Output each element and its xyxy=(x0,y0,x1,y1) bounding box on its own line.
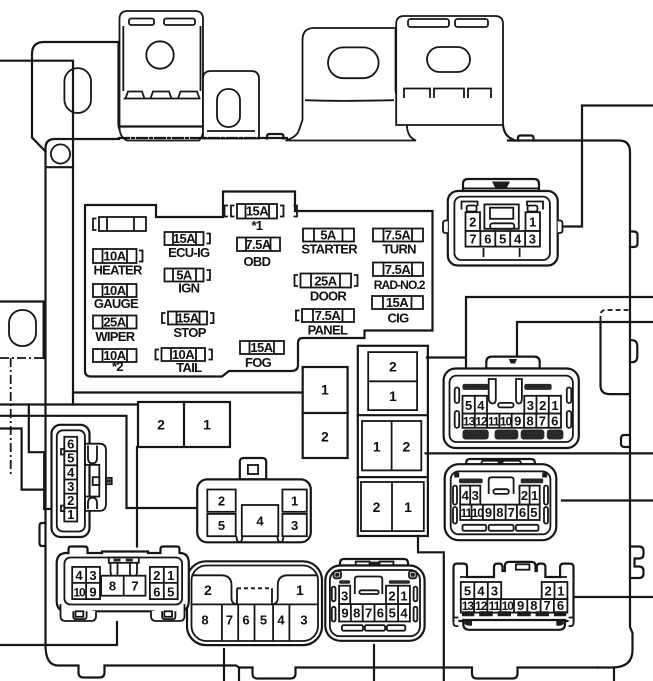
svg-text:ECU-IG: ECU-IG xyxy=(168,245,210,260)
wire leader fuse panel area to relay box K xyxy=(73,391,303,393)
svg-text:*1: *1 xyxy=(251,218,262,233)
small tab inside right edge y=435..447 xyxy=(621,435,629,447)
svg-text:WIPER: WIPER xyxy=(95,329,135,344)
connector B side slots xyxy=(455,388,460,404)
svg-text:7: 7 xyxy=(365,606,372,621)
fuse 7.5A PANEL xyxy=(296,308,354,337)
wire leader bottom right flange to bottom edge xyxy=(613,668,615,681)
svg-text:FOG: FOG xyxy=(245,355,272,370)
svg-text:2: 2 xyxy=(204,582,212,598)
svg-text:6: 6 xyxy=(557,598,564,613)
svg-text:1: 1 xyxy=(389,388,397,404)
svg-text:6: 6 xyxy=(551,413,558,428)
svg-text:5: 5 xyxy=(389,606,396,621)
svg-text:10: 10 xyxy=(73,585,86,599)
connector B pin cells bottom row 13..6 xyxy=(463,414,562,428)
svg-text:2: 2 xyxy=(403,439,411,455)
svg-text:9: 9 xyxy=(89,584,96,599)
svg-text:11: 11 xyxy=(489,599,501,613)
fuse 5A IGN xyxy=(165,268,211,296)
small bump on right edge y=231..247 xyxy=(630,232,638,248)
svg-text:2: 2 xyxy=(67,493,74,508)
connector C center latch xyxy=(489,477,514,494)
wire from relay block bottom to bottom edge xyxy=(418,536,444,681)
connector G pin block right 2 1 / 6 5 xyxy=(150,567,178,599)
svg-text:6: 6 xyxy=(377,606,384,621)
fuse 7.5A RAD-NO 2 xyxy=(373,262,426,292)
connector D hatch dashes xyxy=(462,611,566,616)
connector C pin cells top row 4 3 / 2 1 xyxy=(460,486,480,505)
svg-text:GAUGE: GAUGE xyxy=(94,296,139,311)
svg-text:7.5A: 7.5A xyxy=(315,308,342,323)
svg-text:7: 7 xyxy=(508,505,515,520)
main fuse box outline (top-right, right edge, bottom-right flange corner) xyxy=(508,141,633,668)
svg-text:10A: 10A xyxy=(103,249,126,264)
svg-text:2: 2 xyxy=(388,588,395,603)
connector B hatch bars top xyxy=(463,384,489,390)
svg-text:2: 2 xyxy=(539,398,546,413)
svg-text:TURN: TURN xyxy=(383,242,417,257)
svg-text:3: 3 xyxy=(529,232,536,247)
fuse 10A HEATER xyxy=(93,249,143,278)
connector A (7-pin, top right) xyxy=(443,179,563,266)
svg-text:9: 9 xyxy=(341,606,348,621)
wire leader connector D to right edge xyxy=(575,596,653,598)
mounting bracket top-left (with oval hole and round hole) xyxy=(32,42,131,167)
svg-text:25A: 25A xyxy=(314,273,337,288)
wire leader right edge to connector A xyxy=(565,106,653,227)
wire leader relay block mid to right edge xyxy=(426,452,653,454)
connector B latch posts xyxy=(489,379,496,404)
svg-text:6: 6 xyxy=(484,232,491,247)
connector E (9-pin, bottom center) xyxy=(325,559,424,641)
connector B (13-pin, right middle) xyxy=(444,357,579,448)
fuse 10A *2 xyxy=(93,348,137,374)
connector E bottom bars xyxy=(342,625,363,631)
svg-text:1: 1 xyxy=(531,488,538,503)
svg-text:7: 7 xyxy=(539,413,546,428)
wire leader flange to bottom edge xyxy=(238,668,240,681)
svg-text:3: 3 xyxy=(472,488,479,503)
bracket leg bottom edge xyxy=(47,166,74,168)
connector G (10-pin, bottom left) xyxy=(57,547,189,622)
svg-text:8: 8 xyxy=(201,613,208,628)
svg-text:6: 6 xyxy=(67,437,74,452)
svg-text:15A: 15A xyxy=(250,340,273,355)
fuse empty slot (top left) xyxy=(93,217,146,231)
mounting bracket top-right (with stadium hole and slots) xyxy=(396,16,514,141)
svg-text:4: 4 xyxy=(477,584,485,599)
svg-text:4: 4 xyxy=(400,606,408,621)
connector A center window xyxy=(484,204,518,228)
svg-text:1: 1 xyxy=(551,398,558,413)
fuse 5A STARTER xyxy=(301,228,358,257)
svg-text:5: 5 xyxy=(465,398,472,413)
svg-text:4: 4 xyxy=(514,232,522,247)
fuse 25A DOOR xyxy=(295,273,358,303)
svg-text:12: 12 xyxy=(475,599,488,613)
svg-text:HEATER: HEATER xyxy=(93,263,143,278)
svg-text:RAD-NO.2: RAD-NO.2 xyxy=(374,278,426,292)
svg-text:13: 13 xyxy=(462,599,475,613)
wire leader left edge to connector I xyxy=(0,416,197,508)
wire leader right edge to connector B latch xyxy=(517,322,653,356)
small bump on top edge between brackets xyxy=(267,134,284,139)
dashed hidden corner inside right edge y=310 xyxy=(601,310,629,321)
wire leader right edge to connector B top left xyxy=(466,297,653,368)
main fuse box outline (left edge, top edge, bottom edge with tabs) xyxy=(46,139,599,679)
relay box K 1/2 (center) xyxy=(303,367,348,458)
connector I pin cells xyxy=(207,490,235,512)
svg-text:2: 2 xyxy=(389,359,397,375)
svg-text:4: 4 xyxy=(477,398,485,413)
fuse 15A STOP xyxy=(162,311,214,340)
svg-text:3: 3 xyxy=(527,398,534,413)
svg-text:8: 8 xyxy=(353,606,360,621)
svg-text:2: 2 xyxy=(469,214,476,229)
svg-text:5: 5 xyxy=(167,584,174,599)
svg-text:3: 3 xyxy=(67,479,74,494)
svg-text:15A: 15A xyxy=(173,231,196,246)
connector A pin cells xyxy=(466,212,481,231)
connector G bottom skirts xyxy=(61,604,97,621)
svg-text:7: 7 xyxy=(469,232,476,247)
connector E pin cells top row 3 / 2 1 xyxy=(339,586,350,604)
svg-text:10: 10 xyxy=(472,506,485,520)
svg-text:3: 3 xyxy=(491,584,498,599)
connector A top hooks xyxy=(462,202,544,210)
svg-text:7.5A: 7.5A xyxy=(245,237,272,252)
svg-text:9: 9 xyxy=(514,413,521,428)
connector C bottom bars xyxy=(463,525,487,531)
connector D (13-pin, bottom right) xyxy=(454,562,574,630)
svg-text:15A: 15A xyxy=(176,311,199,326)
wire leader connector C to right edge xyxy=(562,499,653,501)
svg-text:8: 8 xyxy=(530,598,537,613)
connector I (5-pin, center) xyxy=(197,458,311,542)
double tab outside right edge y=546..578 xyxy=(630,547,644,579)
svg-text:1: 1 xyxy=(404,499,412,515)
svg-text:7.5A: 7.5A xyxy=(385,228,412,243)
connector G center cells 8 7 xyxy=(101,576,145,596)
connector B hatch bars bottom xyxy=(463,430,489,440)
svg-text:2: 2 xyxy=(218,494,225,509)
box top edge hidden behind brackets (dash-dot) xyxy=(119,137,258,139)
wire from relay box 2|1 down to connector G xyxy=(136,447,138,547)
svg-text:4: 4 xyxy=(277,613,285,628)
svg-text:PANEL: PANEL xyxy=(308,323,348,338)
svg-text:6: 6 xyxy=(519,505,526,520)
svg-text:5A: 5A xyxy=(320,228,337,243)
fuse 10A TAIL xyxy=(156,347,213,375)
svg-text:2: 2 xyxy=(521,488,528,503)
inner pocket outline on right edge y=322..394 xyxy=(601,323,629,394)
relay compartment 1 inner 2/1 xyxy=(368,352,417,410)
svg-text:5: 5 xyxy=(499,232,506,247)
svg-text:10: 10 xyxy=(502,599,515,613)
connector C side slots xyxy=(453,486,457,505)
svg-text:2: 2 xyxy=(544,584,551,599)
connector D pin cells top row 5 4 3 / 2 1 xyxy=(461,582,501,599)
svg-text:1: 1 xyxy=(203,417,211,433)
svg-text:5: 5 xyxy=(260,613,267,628)
svg-text:8: 8 xyxy=(496,505,503,520)
fuse panel outline xyxy=(85,192,433,377)
mounting bracket left edge middle (oval hole, dash-dot bottom) xyxy=(0,302,44,477)
connector B pin cells top row 5 4 / 3 2 1 xyxy=(463,396,488,414)
connector E center latch xyxy=(355,577,383,595)
fuse 7.5A OBD xyxy=(237,237,280,269)
svg-text:2: 2 xyxy=(157,417,165,433)
svg-text:4: 4 xyxy=(75,568,83,583)
svg-text:1: 1 xyxy=(296,582,304,598)
fuse 25A WIPER xyxy=(93,315,137,344)
svg-text:5: 5 xyxy=(67,451,74,466)
svg-text:7: 7 xyxy=(544,598,551,613)
svg-text:OBD: OBD xyxy=(244,254,271,269)
svg-text:1: 1 xyxy=(529,214,536,229)
wire stub to connector H upper xyxy=(29,405,44,453)
svg-text:8: 8 xyxy=(109,579,116,594)
svg-text:5: 5 xyxy=(218,518,225,533)
svg-text:7: 7 xyxy=(131,579,138,594)
D-tab outside right edge y=340..362 xyxy=(630,340,637,362)
round hole in top-left bracket xyxy=(51,144,70,163)
svg-text:1: 1 xyxy=(400,588,407,603)
connector H (6-pin vertical, left) xyxy=(52,425,112,537)
relay compartment 3 inner 2|1 xyxy=(361,482,424,531)
svg-text:8: 8 xyxy=(526,413,533,428)
svg-text:3: 3 xyxy=(341,588,348,603)
wire leader to left edge (top), runs down across bracket xyxy=(0,61,73,405)
mounting bracket with horizontal oval (top center-right) xyxy=(286,28,417,141)
svg-text:STOP: STOP xyxy=(173,325,206,340)
fuse 10A GAUGE xyxy=(93,283,139,311)
wire from relay block top right xyxy=(427,356,465,358)
fuse 15A ECU-IG xyxy=(165,231,211,260)
wire leader left edge to connector H xyxy=(0,429,44,490)
wire leader connector F to bottom edge xyxy=(223,649,225,681)
svg-text:4: 4 xyxy=(462,488,470,503)
wire leader connector E to bottom edge xyxy=(373,645,375,681)
svg-text:6: 6 xyxy=(153,584,160,599)
wire leader left edge to relay box 2|1 xyxy=(0,403,138,405)
connector F (8-pin, bottom left-center) xyxy=(187,561,322,645)
svg-text:13: 13 xyxy=(463,414,476,428)
svg-text:15A: 15A xyxy=(386,295,409,310)
svg-text:*2: *2 xyxy=(112,359,123,374)
svg-text:1: 1 xyxy=(167,568,174,583)
svg-text:3: 3 xyxy=(300,613,307,628)
svg-text:IGN: IGN xyxy=(178,281,199,296)
svg-text:TAIL: TAIL xyxy=(176,360,202,375)
connector E side slots xyxy=(332,587,336,602)
mounting bracket small (vertical oval hole) xyxy=(203,71,259,139)
connector G bottom tabs xyxy=(73,611,86,619)
svg-text:9: 9 xyxy=(517,598,524,613)
svg-text:STARTER: STARTER xyxy=(301,242,358,257)
svg-text:5: 5 xyxy=(464,584,471,599)
connector D pin cells bottom row 13..6 xyxy=(461,599,568,613)
small bump on top edge right of bracket 4 xyxy=(518,136,534,141)
svg-text:1: 1 xyxy=(373,439,381,455)
svg-text:6: 6 xyxy=(242,613,249,628)
svg-text:4: 4 xyxy=(256,514,264,529)
small tab on left edge y=523..546 xyxy=(40,523,46,546)
mounting bracket with circular hole (top center-left) xyxy=(120,11,204,141)
connector H pin column 6..1 xyxy=(64,437,77,522)
svg-text:15A: 15A xyxy=(246,204,269,219)
svg-text:7.5A: 7.5A xyxy=(385,262,412,277)
wire leader left edge bottom to connector F xyxy=(0,622,117,645)
fuse 15A CIG xyxy=(372,295,423,325)
svg-text:10: 10 xyxy=(500,414,513,428)
svg-text:DOOR: DOOR xyxy=(310,289,348,304)
svg-text:3: 3 xyxy=(291,518,298,533)
connector C pin cells bottom row 11..5 xyxy=(460,505,540,520)
svg-text:7: 7 xyxy=(226,613,233,628)
svg-text:11: 11 xyxy=(488,414,500,428)
svg-text:4: 4 xyxy=(67,465,75,480)
svg-text:25A: 25A xyxy=(103,315,126,330)
svg-text:1: 1 xyxy=(557,584,564,599)
svg-text:12: 12 xyxy=(475,414,488,428)
relay compartment 2 inner 1|2 xyxy=(362,421,421,470)
svg-text:2: 2 xyxy=(373,499,381,515)
svg-text:1: 1 xyxy=(67,507,74,522)
svg-text:9: 9 xyxy=(485,505,492,520)
connector C (11-pin, right) xyxy=(445,459,557,540)
fuse 15A *1 xyxy=(225,204,298,233)
svg-text:2: 2 xyxy=(153,568,160,583)
svg-text:1: 1 xyxy=(321,382,329,398)
svg-text:CIG: CIG xyxy=(387,311,409,326)
svg-text:5: 5 xyxy=(530,505,537,520)
svg-text:2: 2 xyxy=(321,429,329,445)
connector G pin block left 4 3 / 10 9 xyxy=(72,567,100,599)
relay block (three compartments) xyxy=(358,346,428,536)
connector D bottom band xyxy=(454,618,574,627)
connector E pin cells bottom row 9..4 xyxy=(339,604,410,621)
relay box 2|1 (left of center) xyxy=(138,402,230,447)
svg-text:3: 3 xyxy=(89,568,96,583)
oval hole in top-left bracket xyxy=(64,68,91,113)
connector G center latch xyxy=(109,558,139,563)
svg-text:1: 1 xyxy=(291,494,298,509)
fuse 15A FOG xyxy=(240,340,284,370)
fuse 7.5A TURN xyxy=(373,228,423,257)
